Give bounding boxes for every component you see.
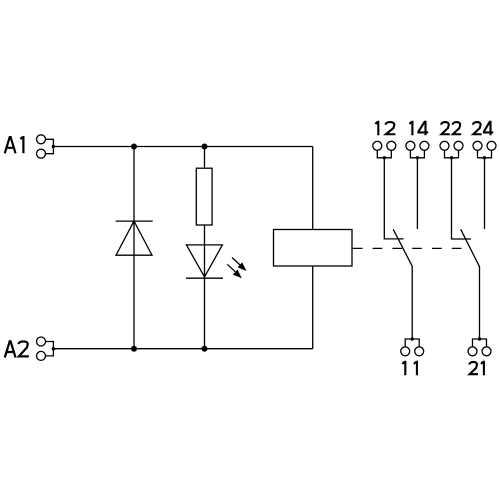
diode V1 triangle	[116, 221, 152, 255]
terminal 22 clamp circle left	[440, 141, 449, 150]
wire contact 22	[452, 158, 472, 239]
label 22 digit 2b	[453, 122, 462, 134]
label 12 digit 2	[386, 122, 396, 134]
junction dot terminal 11	[411, 337, 414, 340]
junction dot terminal 24	[483, 156, 486, 159]
resistor R1	[196, 168, 212, 225]
junction node bottom LED branch	[202, 346, 208, 352]
terminal 22 clamp circle right	[454, 141, 463, 150]
contact blade 2	[461, 229, 480, 339]
wire contact 12	[384, 158, 403, 239]
terminal 12 clamp circle left	[373, 141, 382, 150]
terminal 24 bracket	[478, 150, 492, 158]
terminal 11 clamp circle right	[415, 347, 424, 356]
label A1 letter A	[5, 137, 16, 153]
relay coil K1	[274, 230, 353, 267]
wire contact 24	[484, 158, 486, 229]
terminal A2 bracket	[46, 342, 54, 356]
label 12 digit 1	[375, 121, 378, 136]
wire contact 14	[416, 158, 418, 229]
terminal 21 clamp circle left	[468, 347, 477, 356]
label 21 digit 1	[481, 361, 484, 376]
label A2 letter A	[5, 341, 16, 357]
terminal A2 clamp circle lower	[37, 351, 46, 360]
actuator dashed link	[353, 247, 463, 249]
label A2 digit 2	[19, 341, 29, 356]
LED D1 emission arrow 2 head	[233, 270, 242, 279]
label 24 digit 2	[473, 122, 482, 134]
wire diode branch	[133, 147, 135, 349]
label 14 digit 1	[410, 121, 413, 136]
label 21 digit 2	[469, 362, 478, 374]
junction node top LED branch	[202, 144, 208, 150]
wire relay branch down	[312, 147, 314, 230]
terminal A1 bracket	[46, 139, 54, 153]
terminal 11 clamp circle left	[401, 347, 410, 356]
terminal 21 clamp circle right	[482, 347, 491, 356]
junction dot terminal 21	[478, 337, 481, 340]
label A1 digit 1	[21, 136, 24, 153]
wire bottom rail A2	[53, 348, 312, 350]
junction dot A1 bracket	[52, 145, 55, 148]
junction dot A2 bracket	[52, 347, 55, 350]
terminal 24 clamp circle left	[473, 141, 482, 150]
contact blade 1	[393, 229, 412, 339]
terminal 14 bracket	[410, 150, 424, 158]
wire LED branch	[204, 147, 206, 349]
label 11 digit 1b	[414, 361, 417, 376]
LED D1 emission arrow 1 head	[238, 262, 247, 271]
LED D1 cathode bar	[186, 277, 223, 279]
terminal A2 clamp circle upper	[37, 337, 46, 346]
junction dot terminal 12	[383, 156, 386, 159]
junction dot terminal 14	[416, 156, 419, 159]
terminal A1 clamp circle lower	[37, 149, 46, 158]
terminal 14 clamp circle left	[406, 141, 415, 150]
wire relay to bottom rail	[312, 266, 314, 349]
terminal 12 bracket	[377, 150, 391, 158]
LED D1 emission arrow 1 shaft	[232, 258, 241, 266]
diode V1 cathode bar	[116, 220, 153, 222]
terminal 24 clamp circle right	[487, 141, 496, 150]
LED D1 triangle	[186, 245, 222, 277]
LED D1 emission arrow 2 shaft	[227, 264, 236, 272]
label 14 digit 4	[417, 121, 428, 136]
junction node bottom diode	[131, 346, 137, 352]
junction dot terminal 22	[450, 156, 453, 159]
label 11 digit 1a	[402, 361, 405, 376]
label 22 digit 2a	[441, 122, 450, 134]
terminal 22 bracket	[445, 150, 459, 158]
wire top rail A1	[53, 146, 312, 148]
terminal 11 bracket	[405, 339, 419, 347]
terminal 21 bracket	[473, 339, 487, 347]
terminal 14 clamp circle right	[420, 141, 429, 150]
label 24 digit 4	[483, 121, 493, 136]
junction node top diode	[131, 144, 137, 150]
terminal A1 clamp circle upper	[37, 135, 46, 144]
terminal 12 clamp circle right	[387, 141, 396, 150]
